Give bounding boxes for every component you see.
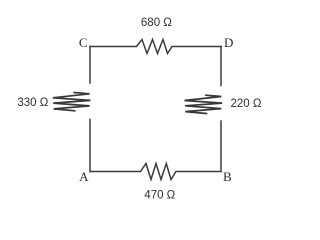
resistor R2 330ohm (left, squashed zigzag) [53,93,91,111]
svg-text:B: B [223,169,232,184]
svg-text:A: A [79,169,89,184]
svg-text:470 Ω: 470 Ω [144,189,175,201]
svg-text:D: D [224,35,233,50]
resistor R3 220ohm (right, squashed zigzag) [185,95,223,113]
wire: left side lower segment (down to A) [89,120,91,172]
svg-text:C: C [79,35,88,50]
resistor R4 470ohm (bottom, horizontal zigzag) [90,164,221,180]
svg-text:220 Ω: 220 Ω [231,98,262,110]
svg-text:330 Ω: 330 Ω [17,97,48,109]
svg-text:680 Ω: 680 Ω [141,17,172,29]
wire: right side lower segment (down to B) [220,121,222,172]
wire: right side upper segment (D down) [220,47,222,86]
wire: left side upper segment (C down) [89,47,91,84]
resistor R1 680ohm (top, horizontal zigzag) [90,40,221,54]
